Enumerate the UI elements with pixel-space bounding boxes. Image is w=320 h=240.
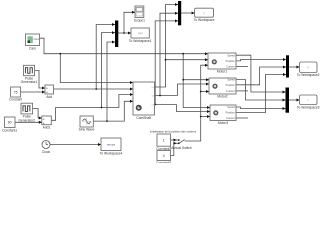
svg-text:Current: Current	[226, 116, 235, 120]
svg-text:Constant: Constant	[9, 98, 22, 102]
svg-text:To Workspace4: To Workspace4	[100, 152, 123, 156]
svg-text:Position: Position	[226, 59, 236, 63]
svg-text:Motor2: Motor2	[217, 95, 227, 99]
svg-text:Constant3: Constant3	[156, 161, 171, 163]
svg-text:Initialisation de la position: Initialisation de la position des moteur…	[150, 129, 197, 133]
svg-text:75: 75	[14, 91, 18, 95]
svg-text:Motor1: Motor1	[217, 70, 227, 74]
svg-text:Speed: Speed	[227, 78, 235, 82]
svg-text:Current: Current	[226, 89, 235, 93]
svg-text:Position: Position	[226, 83, 236, 87]
svg-text:Constant2: Constant2	[156, 147, 171, 151]
svg-text:Add: Add	[46, 95, 52, 99]
svg-text:Sine Wave: Sine Wave	[79, 128, 95, 132]
svg-text:To Workspace2: To Workspace2	[297, 73, 320, 77]
svg-text:0: 0	[163, 154, 165, 158]
svg-text:Manual Switch: Manual Switch	[170, 146, 192, 150]
svg-text:Clock: Clock	[42, 150, 51, 154]
svg-text:To Workspace3: To Workspace3	[297, 105, 320, 109]
svg-text:Position: Position	[226, 111, 236, 115]
svg-text:90: 90	[8, 121, 12, 125]
svg-text:Speed: Speed	[227, 53, 235, 57]
svg-text:1: 1	[163, 139, 165, 143]
svg-text:yout: yout	[138, 32, 143, 35]
svg-text:Scope1: Scope1	[134, 18, 145, 22]
svg-text:To Workspace1: To Workspace1	[129, 39, 152, 43]
svg-text:Speed: Speed	[227, 105, 235, 109]
svg-text:temps: temps	[107, 143, 116, 147]
svg-text:To Workspace: To Workspace	[194, 18, 215, 22]
svg-text:Generator1: Generator1	[21, 80, 38, 84]
svg-text:Cam: Cam	[33, 37, 40, 41]
svg-text:Constant1: Constant1	[2, 128, 17, 132]
svg-text:Cam: Cam	[29, 46, 36, 50]
svg-text:Current: Current	[226, 65, 235, 69]
svg-text:Motor3: Motor3	[218, 121, 228, 125]
svg-text:Generator2: Generator2	[18, 118, 35, 122]
svg-text:Add1: Add1	[43, 125, 51, 129]
svg-text:CamShaft: CamShaft	[136, 116, 151, 120]
